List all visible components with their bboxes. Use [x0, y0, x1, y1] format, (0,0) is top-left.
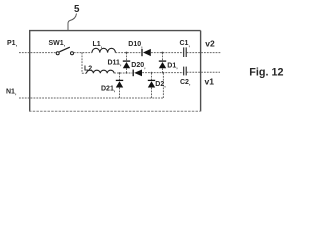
diode D2 branch wire — [151, 73, 153, 98]
svg-text:5: 5 — [74, 4, 80, 15]
diode D1 branch wire — [162, 53, 164, 73]
svg-text:D10,: D10, — [128, 41, 143, 49]
junction dots — [119, 52, 164, 74]
diode D2 — [148, 80, 155, 87]
svg-text:P1,: P1, — [7, 40, 18, 48]
wire L1 to D10 — [115, 52, 141, 54]
switch SW1 — [56, 47, 73, 55]
svg-text:N1,: N1, — [6, 88, 17, 96]
svg-text:v2: v2 — [205, 39, 215, 49]
box bottom edge — [29, 110, 201, 112]
wire C2 to v1 — [187, 71, 220, 73]
wire L2 to D20 — [114, 72, 132, 74]
svg-text:D1,: D1, — [167, 62, 178, 70]
svg-text:D20,: D20, — [131, 62, 146, 70]
svg-text:D11,: D11, — [108, 59, 122, 67]
diode D21 branch wire — [119, 73, 121, 98]
diode D10 — [142, 49, 151, 56]
inductor L2 — [87, 70, 115, 73]
svg-text:D2,: D2, — [155, 81, 166, 89]
svg-text:L2,: L2, — [84, 65, 94, 73]
diode D11 branch wire — [126, 53, 128, 73]
svg-text:SW1,: SW1, — [49, 40, 66, 48]
wire D10 to C1 — [151, 52, 183, 54]
leader line for 5 — [68, 14, 77, 31]
wire N1 riser to middle node — [162, 73, 164, 98]
diode D1 — [159, 61, 166, 68]
dashed enclosure box 5 — [29, 31, 201, 112]
wire branch down to L2 — [81, 53, 83, 74]
wire N1 bottom — [19, 97, 163, 99]
wire L2 lead — [82, 72, 87, 74]
wire P1 to SW1 — [19, 52, 56, 54]
svg-text:D21,: D21, — [101, 85, 116, 93]
capacitor C1 — [184, 47, 187, 57]
svg-text:C2,: C2, — [180, 79, 191, 87]
diode D20 — [133, 70, 142, 77]
diode D21 — [116, 80, 123, 87]
inductor L1 — [92, 48, 115, 52]
diode D11 — [123, 61, 130, 68]
wire C1 to v2 — [187, 52, 221, 54]
wire SW1 to L1 — [74, 52, 92, 54]
svg-text:Fig. 12: Fig. 12 — [249, 67, 283, 79]
svg-text:v1: v1 — [205, 76, 215, 86]
wire D20 to C2 — [142, 72, 183, 74]
capacitor C2 — [184, 67, 187, 76]
svg-text:C1,: C1, — [180, 40, 191, 48]
